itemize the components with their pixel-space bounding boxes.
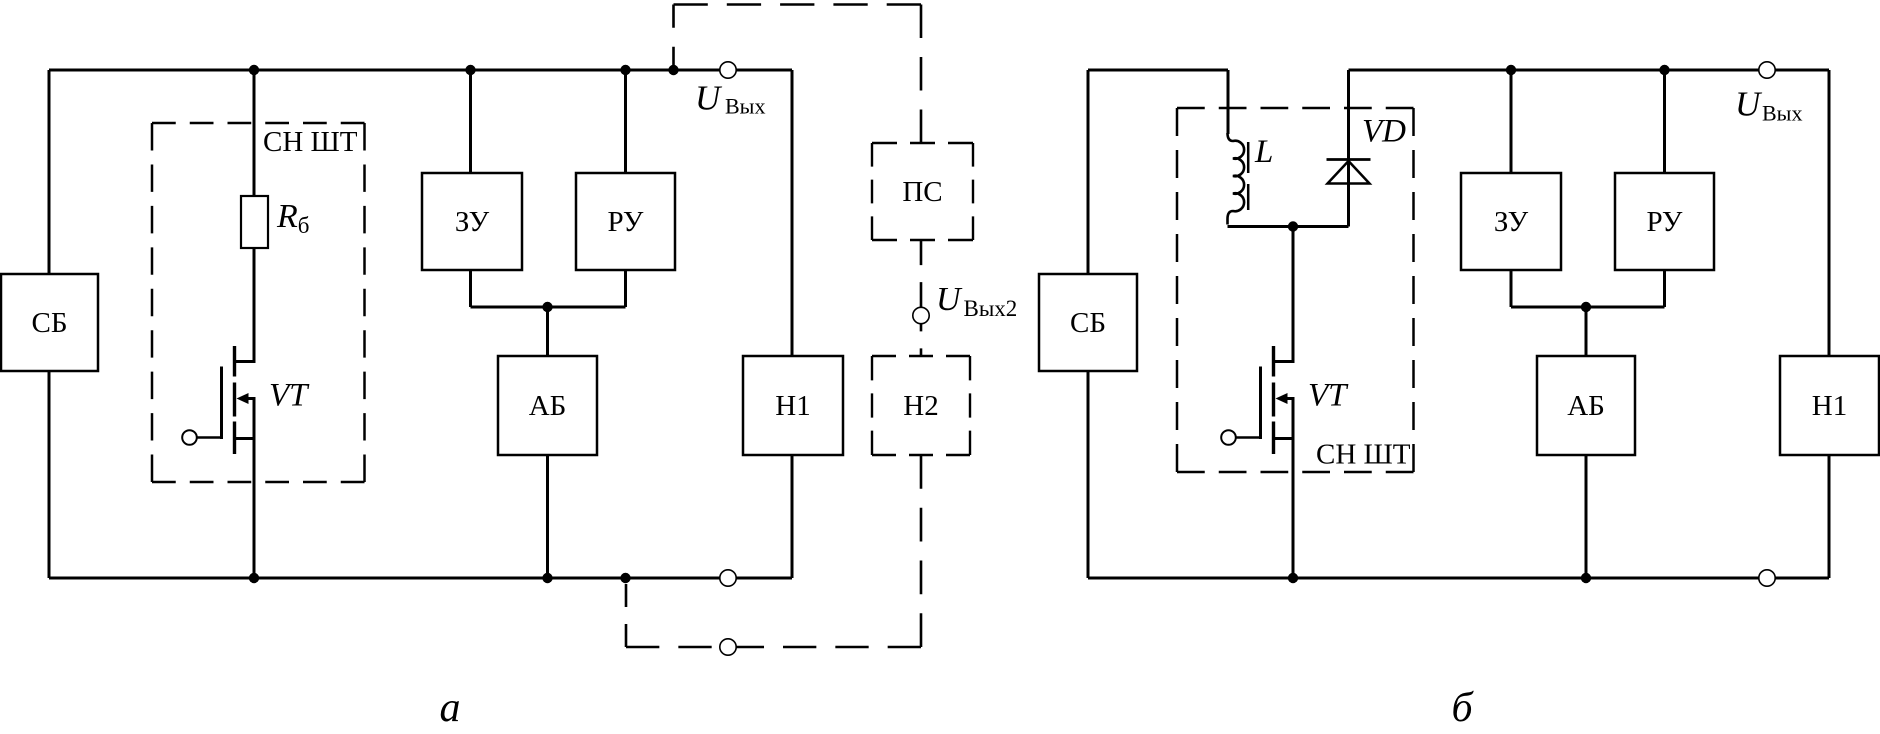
svg-text:СН ШТ: СН ШТ (1316, 439, 1411, 471)
svg-text:VT: VT (269, 378, 310, 414)
svg-text:АБ: АБ (1567, 390, 1605, 422)
svg-text:СБ: СБ (1070, 307, 1106, 339)
svg-text:L: L (1254, 134, 1273, 170)
svg-text:Н1: Н1 (1812, 390, 1847, 422)
svg-text:VT: VT (1308, 378, 1349, 414)
svg-text:Вых: Вых (1762, 101, 1802, 126)
svg-text:Н2: Н2 (903, 390, 938, 422)
svg-text:РУ: РУ (608, 206, 644, 238)
svg-text:VD: VD (1362, 114, 1406, 150)
svg-text:ЗУ: ЗУ (1494, 206, 1529, 238)
svg-text:U: U (936, 281, 963, 318)
svg-text:ЗУ: ЗУ (455, 206, 490, 238)
svg-text:Вых2: Вых2 (964, 296, 1018, 321)
svg-text:Н1: Н1 (775, 390, 810, 422)
svg-text:РУ: РУ (1647, 206, 1683, 238)
svg-text:б: б (1451, 685, 1474, 731)
svg-text:U: U (695, 79, 723, 118)
svg-text:СН ШТ: СН ШТ (263, 126, 358, 158)
svg-text:ПС: ПС (902, 176, 942, 208)
svg-text:Вых: Вых (725, 94, 765, 119)
svg-text:а: а (440, 685, 461, 731)
svg-text:СБ: СБ (32, 307, 68, 339)
svg-text:U: U (1735, 85, 1763, 124)
svg-text:АБ: АБ (529, 390, 567, 422)
